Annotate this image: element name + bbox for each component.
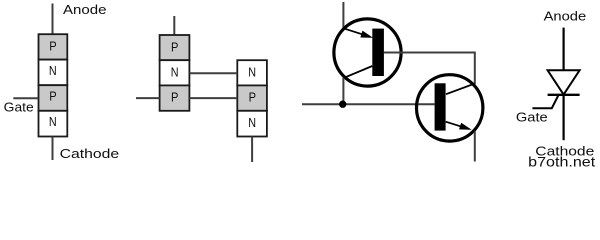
wire P2-P2 link <box>189 97 237 99</box>
svg-text:b7oth.net: b7oth.net <box>528 154 595 169</box>
junction dot <box>339 101 346 108</box>
svg-text:Gate: Gate <box>516 111 548 125</box>
svg-text:P: P <box>49 89 56 103</box>
svg-text:N: N <box>248 116 256 130</box>
wire cathode lead <box>52 137 54 161</box>
cathode bar <box>548 94 580 96</box>
svg-text:P: P <box>171 91 178 105</box>
svg-text:P: P <box>249 91 256 105</box>
layer N1 (right column) <box>237 60 267 85</box>
thyristor schematic symbol <box>516 8 594 158</box>
svg-text:Gate: Gate <box>4 101 34 115</box>
layer P2 <box>39 85 68 111</box>
wire N1-N1 link <box>189 72 237 74</box>
svg-text:Anode: Anode <box>544 8 587 23</box>
wire Q2 emitter lead (cathode) <box>474 132 476 162</box>
svg-text:N: N <box>49 64 57 78</box>
transistor Q1 (PNP) <box>334 19 401 86</box>
thyristor triangle <box>548 70 580 94</box>
wire gate stub <box>136 97 160 99</box>
svg-text:Cathode: Cathode <box>60 146 120 161</box>
two-transistor equivalent circuit <box>302 2 483 162</box>
wire cathode lead (split diagram) <box>251 137 253 163</box>
layer N2 (right column) <box>237 111 267 137</box>
layer P2 (right column) <box>237 85 267 110</box>
layer N1 <box>39 60 68 86</box>
wire gate lead <box>13 97 38 99</box>
wire Q1 emitter lead (anode) <box>342 2 344 28</box>
wire anode lead <box>52 4 54 35</box>
svg-text:N: N <box>248 65 256 79</box>
layer P1 (left column) <box>160 35 190 60</box>
layer N2 <box>39 111 68 137</box>
layer N1 (left column) <box>160 60 190 85</box>
wire cathode lead (symbol) <box>562 95 564 140</box>
middle two-column PNP/NPN split diagram <box>136 16 267 162</box>
svg-text:N: N <box>49 115 57 129</box>
wire Q1 base to Q2 collector <box>384 53 475 85</box>
svg-text:P: P <box>171 40 178 54</box>
svg-text:P: P <box>49 40 56 54</box>
svg-text:N: N <box>171 65 179 79</box>
svg-text:Anode: Anode <box>63 2 107 17</box>
wire gate lead (symbol) <box>532 95 558 108</box>
wire anode lead (split diagram) <box>173 16 175 35</box>
wire anode lead (symbol) <box>562 28 564 71</box>
left PNPN layer stack diagram <box>4 2 119 161</box>
layer P2 (left column) <box>160 85 190 110</box>
wire gate rail <box>302 103 435 105</box>
layer P1 <box>39 34 68 59</box>
transistor Q2 (NPN) <box>417 75 483 141</box>
wire Q1 collector lead down to junction <box>342 78 344 105</box>
